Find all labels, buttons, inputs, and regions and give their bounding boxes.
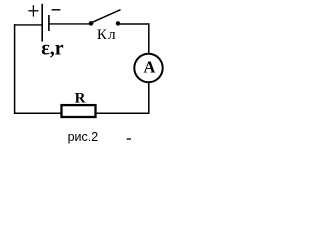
battery minus sign — [52, 9, 61, 11]
wire: top from battery negative plate to switch left contact — [49, 23, 91, 25]
svg-text:ε,r: ε,r — [41, 38, 64, 60]
dash mark right of caption — [127, 138, 131, 140]
wire: top from left corner to battery positive plate — [14, 24, 42, 26]
wire: left vertical side — [14, 24, 16, 113]
resistor R box — [62, 105, 96, 117]
battery GB1 negative short plate — [48, 15, 50, 31]
svg-text:A: A — [143, 58, 155, 77]
wire: right vertical below ammeter — [148, 82, 150, 114]
switch SA1 right contact dot — [116, 21, 120, 25]
svg-text:Кл: Кл — [97, 27, 117, 43]
battery plus sign — [28, 5, 38, 16]
wire: bottom from resistor to bottom-right corner — [96, 112, 150, 114]
svg-text:рис.2: рис.2 — [68, 130, 99, 144]
wire: top from switch right contact to top-right corner — [118, 23, 150, 25]
ammeter PA1 circle — [134, 54, 162, 82]
wire: bottom from left corner to resistor — [14, 112, 61, 114]
switch SA1 left contact dot — [89, 21, 94, 26]
wire: right vertical above ammeter — [148, 23, 150, 54]
battery GB1 positive long plate — [41, 4, 43, 42]
switch SA1 lever — [93, 10, 121, 23]
svg-text:R: R — [75, 91, 86, 107]
